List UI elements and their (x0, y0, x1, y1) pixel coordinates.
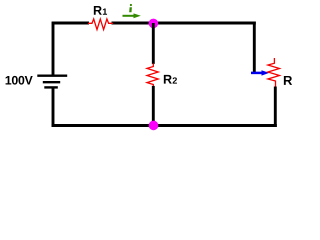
battery V1 short plate (44, 86, 58, 88)
wire left vertical upper (corner to battery +) (52, 22, 55, 76)
node B (bottom, magenta junction) (149, 121, 159, 131)
wire right vertical upper (top-right corner down) (253, 22, 256, 73)
label R (284, 76, 292, 85)
wire top horizontal left segment (top-left corner to R1) (52, 22, 89, 25)
resistor R (load) (268, 58, 280, 88)
current arrow into R (blue) (251, 70, 269, 75)
node A (top, magenta junction) (149, 19, 159, 29)
label i (green) (129, 4, 132, 12)
wire middle vertical lower (R2 to node B) (152, 86, 155, 126)
wire left vertical lower (battery - to bottom wire) (52, 87, 55, 127)
wire right vertical lower (R to bottom-right corner) (274, 87, 277, 128)
wire middle vertical upper (node A to R2) (152, 23, 155, 64)
wire top horizontal right segment (R1 to top-right corner) (112, 22, 256, 25)
battery V1 long plate (37, 74, 67, 76)
label R2 (164, 75, 177, 84)
current arrow i (green) (123, 13, 141, 18)
resistor R1 (88, 19, 113, 30)
resistor R2 (147, 64, 158, 89)
label 100V (6, 76, 33, 85)
battery V1 medium plate (43, 81, 60, 83)
wire bottom horizontal (52, 124, 277, 127)
label R1 (94, 6, 107, 15)
